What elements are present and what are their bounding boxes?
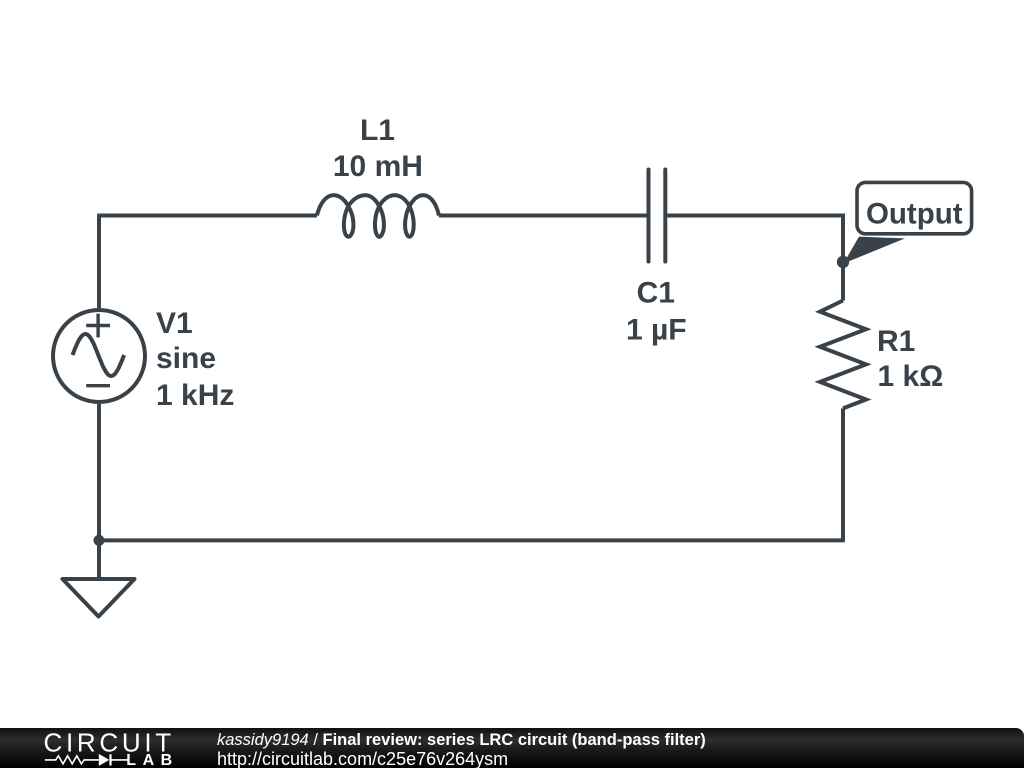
- wire bottom horizontal: [98, 538, 845, 542]
- capacitor C1 left plate: [647, 170, 651, 262]
- wire top horizontal left (to L1): [97, 214, 317, 218]
- svg-text:sine: sine: [156, 342, 216, 375]
- svg-text:1 µF: 1 µF: [626, 314, 687, 347]
- CircuitLab logo: [0, 728, 200, 768]
- svg-text:L1: L1: [360, 114, 395, 147]
- logo diode triangle: [99, 754, 110, 766]
- voltage source V1 circle: [53, 310, 145, 402]
- svg-text:1 kΩ: 1 kΩ: [878, 360, 944, 393]
- inductor L1: [317, 195, 439, 237]
- V1 minus sign: [86, 384, 110, 387]
- svg-text:10 mH: 10 mH: [333, 150, 423, 183]
- output flag box: [857, 182, 972, 233]
- svg-text:Output: Output: [866, 198, 963, 231]
- svg-text:V1: V1: [156, 307, 193, 340]
- svg-text:1 kHz: 1 kHz: [156, 379, 234, 412]
- svg-text:C1: C1: [637, 277, 675, 310]
- node dot at output: [837, 256, 849, 268]
- wire C1 to top-right corner: [667, 216, 843, 301]
- resistor R1 zigzag: [820, 301, 866, 409]
- V1 sine symbol: [73, 334, 125, 376]
- footer url line 2: [217, 749, 508, 768]
- wire left vertical (V1 bottom lead): [97, 404, 101, 539]
- footer bar: [0, 728, 1024, 768]
- wire top-left vertical (V1 top lead): [97, 216, 101, 309]
- wire L1 to C1: [439, 214, 647, 218]
- svg-text:LAB: LAB: [126, 752, 178, 768]
- ground symbol triangle: [63, 579, 135, 617]
- ground stub wire: [97, 540, 101, 577]
- output flag pointer: [844, 237, 906, 264]
- capacitor C1 right plate: [663, 170, 667, 262]
- node dot at ground junction: [94, 535, 105, 546]
- logo schematic: wire + resistor + diode: [45, 754, 128, 765]
- svg-text:R1: R1: [877, 325, 915, 358]
- V1 plus sign: [86, 314, 110, 338]
- footer credits line 1: [217, 731, 706, 750]
- wire R1 bottom lead: [841, 408, 845, 540]
